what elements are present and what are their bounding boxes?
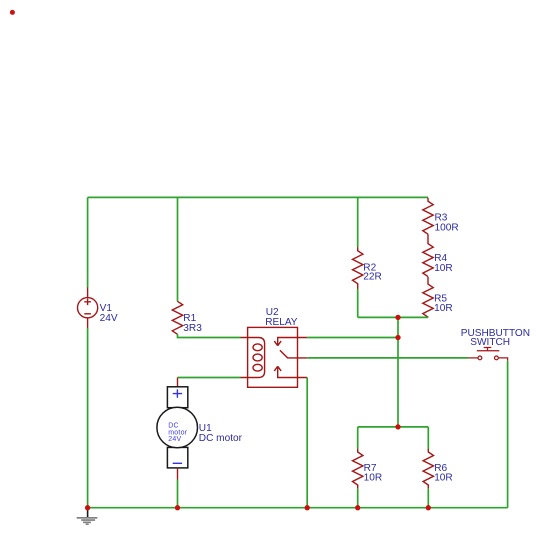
- wire R7 top: [357, 427, 359, 449]
- resistor R7: [353, 449, 363, 489]
- motor U1: [157, 387, 198, 468]
- svg-text:22R: 22R: [363, 272, 382, 283]
- source V1: [78, 288, 98, 329]
- svg-text:10R: 10R: [434, 263, 453, 274]
- relay switch blade diagonal: [280, 350, 307, 358]
- wire top rail: [88, 196, 428, 198]
- svg-text:24V: 24V: [168, 436, 181, 443]
- wire R6 bottom: [427, 489, 429, 508]
- resistor R3: [423, 198, 433, 234]
- resistor R6: [423, 449, 433, 489]
- wire left vertical (V1 to ground): [87, 328, 89, 508]
- junction dot motor/rail: [175, 505, 180, 510]
- wire vertical node column: [397, 317, 399, 427]
- wire R1 branch vertical: [177, 197, 179, 301]
- junction dot node mid: [395, 315, 400, 320]
- motor minus sign: [173, 462, 182, 464]
- svg-text:10R: 10R: [364, 472, 383, 483]
- wire bottom rail: [88, 507, 508, 509]
- wire motor plus to relay coil pin2: [178, 377, 241, 379]
- wire relay common to pushbutton: [307, 357, 468, 359]
- wire R1 to relay coil pin1: [178, 334, 241, 337]
- wire pushbutton down to rail: [507, 361, 509, 508]
- wire R6 top: [427, 427, 429, 449]
- svg-text:DC motor: DC motor: [199, 433, 243, 444]
- junction dot NC node: [395, 335, 400, 340]
- junction dot R7R6 top node: [395, 424, 400, 429]
- relay U2 box: [248, 327, 298, 387]
- wire R2/R5 bottom joining: [358, 316, 428, 318]
- junction dot R6/rail: [426, 505, 431, 510]
- junction dot relay/rail: [305, 505, 310, 510]
- ground: [77, 508, 98, 525]
- wire R2 bottom: [357, 289, 359, 318]
- relay switch NC contact with down arrow: [274, 338, 307, 346]
- wire left vertical (rail to V1): [87, 197, 89, 287]
- svg-text:SWITCH: SWITCH: [470, 337, 510, 348]
- resistor R1: [172, 301, 182, 334]
- wire relay NC to node: [307, 337, 398, 339]
- svg-text:3R3: 3R3: [183, 323, 202, 334]
- wire R7 bottom: [357, 489, 359, 508]
- relay coil: [241, 338, 265, 378]
- motor top pin stub: [177, 378, 179, 388]
- junction dot R7/rail: [355, 505, 360, 510]
- svg-text:RELAY: RELAY: [265, 317, 298, 328]
- resistor R2: [353, 247, 363, 289]
- svg-text:10R: 10R: [434, 472, 453, 483]
- resistor R4: [423, 234, 433, 276]
- junction dot ground: [85, 505, 90, 510]
- relay switch NO contact with up arrow: [274, 366, 307, 377]
- wire R2 top: [357, 197, 359, 247]
- motor plus sign: [173, 389, 182, 397]
- svg-text:24V: 24V: [100, 313, 118, 324]
- pushbutton switch: [468, 348, 507, 361]
- resistor R5: [423, 277, 433, 318]
- wire relay NO down to rail: [306, 378, 308, 508]
- motor bottom stub: [177, 468, 179, 480]
- svg-text:100R: 100R: [435, 223, 459, 234]
- wire R7/R6 top joining: [358, 426, 429, 428]
- svg-text:10R: 10R: [434, 303, 453, 314]
- wire motor to bottom rail: [177, 480, 179, 508]
- origin marker dot: [10, 10, 15, 15]
